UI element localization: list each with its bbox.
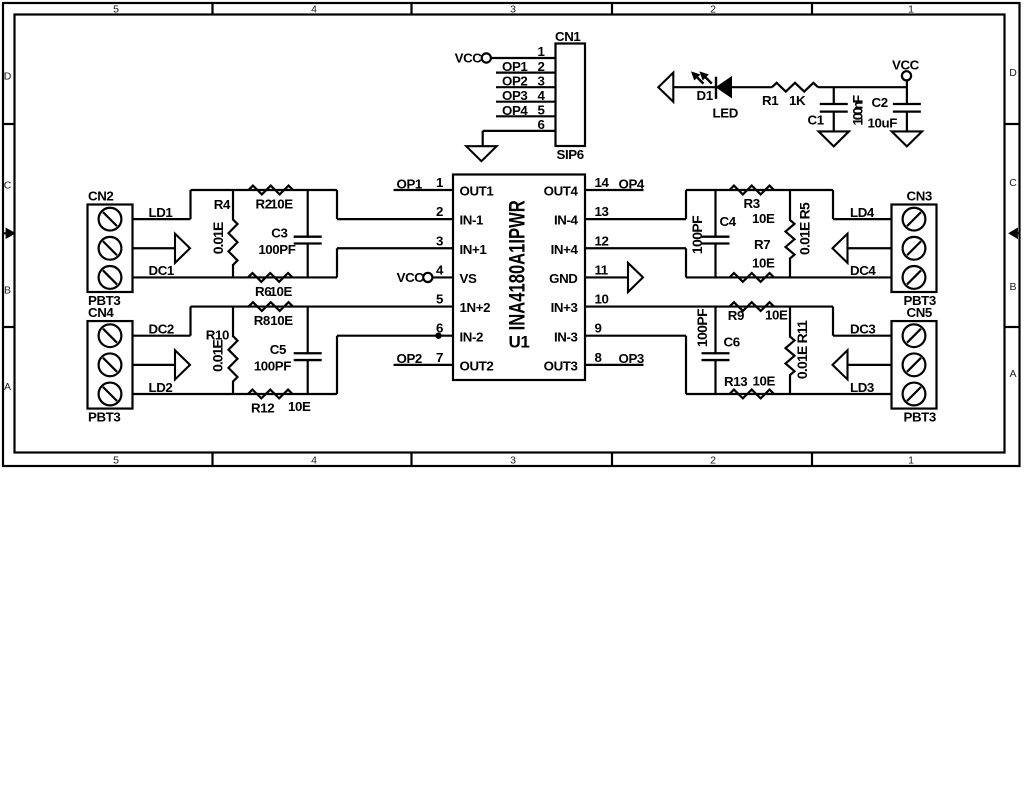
svg-text:OP2: OP2 bbox=[502, 74, 527, 89]
svg-text:CN4: CN4 bbox=[88, 305, 114, 320]
svg-text:100PF: 100PF bbox=[694, 308, 710, 347]
svg-text:DC2: DC2 bbox=[149, 322, 174, 337]
svg-text:C3: C3 bbox=[271, 226, 287, 241]
svg-text:VCC: VCC bbox=[397, 270, 425, 285]
svg-text:R3: R3 bbox=[744, 196, 760, 211]
svg-text:1N+2: 1N+2 bbox=[460, 300, 491, 315]
svg-text:LD2: LD2 bbox=[149, 380, 173, 395]
svg-text:C4: C4 bbox=[720, 214, 737, 229]
svg-text:4: 4 bbox=[311, 3, 317, 15]
svg-text:R4: R4 bbox=[214, 197, 231, 212]
svg-text:DC4: DC4 bbox=[850, 263, 876, 278]
svg-text:1K: 1K bbox=[789, 93, 806, 108]
svg-text:PBT3: PBT3 bbox=[904, 410, 936, 425]
svg-text:A: A bbox=[4, 381, 11, 393]
svg-text:5: 5 bbox=[113, 454, 119, 466]
svg-text:11: 11 bbox=[595, 262, 609, 277]
svg-text:3: 3 bbox=[436, 233, 443, 248]
svg-text:CN5: CN5 bbox=[907, 305, 933, 320]
svg-text:100PF: 100PF bbox=[689, 215, 705, 254]
svg-text:OP3: OP3 bbox=[619, 351, 644, 366]
svg-text:R2: R2 bbox=[256, 196, 272, 211]
svg-text:2: 2 bbox=[710, 454, 716, 466]
svg-text:LD1: LD1 bbox=[149, 205, 174, 220]
svg-text:U1: U1 bbox=[509, 333, 530, 352]
svg-text:10uF: 10uF bbox=[868, 115, 898, 130]
svg-text:D1: D1 bbox=[697, 88, 714, 103]
svg-text:12: 12 bbox=[595, 233, 609, 248]
svg-text:CN1: CN1 bbox=[555, 29, 581, 44]
svg-text:GND: GND bbox=[549, 271, 578, 286]
svg-text:7: 7 bbox=[436, 350, 443, 365]
svg-text:OUT1: OUT1 bbox=[460, 184, 495, 199]
svg-text:B: B bbox=[4, 285, 11, 297]
svg-text:R13: R13 bbox=[724, 374, 747, 389]
svg-text:OP3: OP3 bbox=[502, 88, 527, 103]
svg-text:C2: C2 bbox=[872, 95, 888, 110]
svg-text:LD3: LD3 bbox=[850, 380, 874, 395]
svg-text:OP1: OP1 bbox=[502, 59, 528, 74]
svg-text:D: D bbox=[1009, 67, 1017, 79]
svg-text:14: 14 bbox=[595, 175, 610, 190]
svg-text:1: 1 bbox=[908, 3, 914, 15]
svg-text:IN-3: IN-3 bbox=[554, 329, 578, 344]
svg-text:IN+1: IN+1 bbox=[460, 242, 488, 257]
svg-text:0.01E R5: 0.01E R5 bbox=[796, 202, 812, 255]
svg-text:IN-1: IN-1 bbox=[460, 213, 485, 228]
svg-text:10E: 10E bbox=[752, 256, 775, 271]
svg-text:CN2: CN2 bbox=[88, 189, 113, 204]
svg-text:LD4: LD4 bbox=[850, 205, 875, 220]
svg-text:R1: R1 bbox=[762, 93, 779, 108]
svg-text:10E: 10E bbox=[765, 308, 788, 323]
svg-text:B: B bbox=[1009, 281, 1016, 293]
svg-text:13: 13 bbox=[595, 204, 609, 219]
svg-text:C: C bbox=[4, 180, 12, 192]
svg-text:C: C bbox=[1009, 177, 1017, 189]
svg-text:OUT3: OUT3 bbox=[544, 358, 578, 373]
svg-text:VCC: VCC bbox=[892, 57, 920, 72]
svg-text:10E: 10E bbox=[753, 374, 776, 389]
svg-text:10E: 10E bbox=[270, 196, 293, 211]
svg-text:100nF: 100nF bbox=[849, 94, 865, 125]
svg-text:IN-4: IN-4 bbox=[554, 213, 579, 228]
svg-text:OUT4: OUT4 bbox=[544, 184, 579, 199]
svg-text:IN+4: IN+4 bbox=[551, 242, 579, 257]
svg-text:INA4180A1IPWR: INA4180A1IPWR bbox=[505, 200, 530, 330]
svg-text:IN+3: IN+3 bbox=[551, 300, 578, 315]
svg-text:R9: R9 bbox=[728, 308, 744, 323]
svg-text:SIP6: SIP6 bbox=[557, 147, 584, 162]
svg-text:C6: C6 bbox=[724, 335, 740, 350]
svg-text:2: 2 bbox=[710, 3, 716, 15]
svg-text:0.01E: 0.01E bbox=[210, 340, 226, 372]
svg-text:VS: VS bbox=[460, 271, 477, 286]
svg-text:D: D bbox=[4, 71, 12, 83]
svg-text:9: 9 bbox=[595, 321, 602, 336]
svg-text:R7: R7 bbox=[754, 237, 770, 252]
svg-text:10E: 10E bbox=[288, 399, 311, 414]
svg-text:DC1: DC1 bbox=[149, 263, 175, 278]
svg-text:VCC: VCC bbox=[455, 50, 483, 65]
svg-text:0.01E R11: 0.01E R11 bbox=[794, 320, 810, 379]
svg-text:5: 5 bbox=[113, 3, 119, 15]
svg-text:C1: C1 bbox=[808, 112, 825, 127]
svg-text:R8: R8 bbox=[254, 313, 270, 328]
svg-text:100PF: 100PF bbox=[258, 242, 295, 257]
svg-text:OP4: OP4 bbox=[502, 103, 528, 118]
svg-text:0.01E: 0.01E bbox=[210, 222, 226, 254]
svg-text:5: 5 bbox=[436, 292, 444, 307]
svg-text:1: 1 bbox=[908, 454, 914, 466]
svg-text:CN3: CN3 bbox=[907, 189, 932, 204]
svg-text:OP1: OP1 bbox=[397, 176, 423, 191]
svg-text:DC3: DC3 bbox=[850, 322, 875, 337]
svg-text:10E: 10E bbox=[752, 211, 775, 226]
svg-text:1: 1 bbox=[436, 175, 444, 190]
svg-text:OUT2: OUT2 bbox=[460, 358, 494, 373]
svg-text:PBT3: PBT3 bbox=[88, 410, 120, 425]
svg-text:8: 8 bbox=[595, 350, 602, 365]
svg-text:10E: 10E bbox=[270, 313, 293, 328]
svg-text:A: A bbox=[1009, 368, 1016, 380]
svg-text:4: 4 bbox=[311, 454, 317, 466]
svg-text:OP4: OP4 bbox=[619, 176, 645, 191]
svg-text:R12: R12 bbox=[251, 400, 274, 415]
svg-text:4: 4 bbox=[436, 262, 444, 277]
svg-text:LED: LED bbox=[713, 106, 739, 121]
svg-text:10: 10 bbox=[595, 292, 609, 307]
svg-text:3: 3 bbox=[510, 3, 516, 15]
svg-text:OP2: OP2 bbox=[397, 351, 422, 366]
svg-text:10E: 10E bbox=[270, 284, 293, 299]
svg-text:100PF: 100PF bbox=[254, 359, 291, 374]
svg-text:IN-2: IN-2 bbox=[460, 329, 484, 344]
svg-text:2: 2 bbox=[436, 204, 443, 219]
svg-text:C5: C5 bbox=[270, 342, 287, 357]
svg-text:3: 3 bbox=[510, 454, 516, 466]
